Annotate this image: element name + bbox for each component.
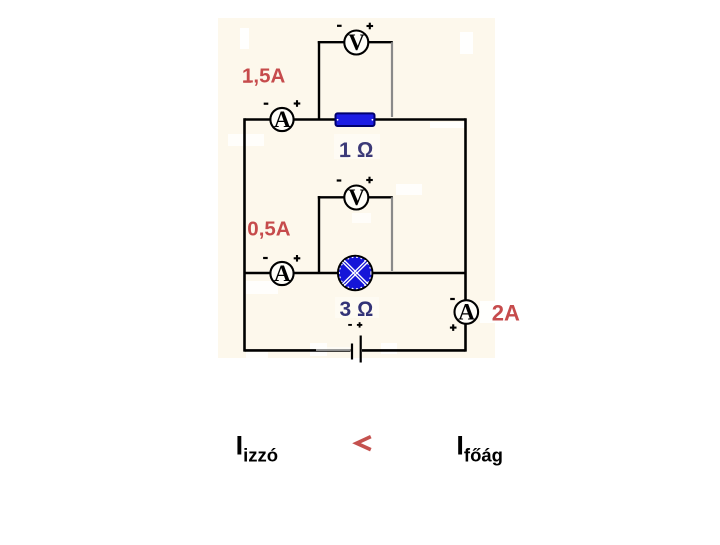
wire: outer loop top (branch 1) y=119.5 — [245, 118, 466, 121]
resistor R1 (1 ohm, blue) — [336, 113, 375, 126]
svg-text:0,5A: 0,5A — [247, 217, 290, 240]
label 1,5A (current branch 1) — [242, 65, 285, 88]
less-than sign — [357, 437, 371, 450]
ammeter A1 polarity — [264, 100, 301, 107]
wire: right vertical — [464, 118, 467, 351]
svg-text:1,5A: 1,5A — [242, 65, 285, 88]
lamp L1 (izzo) — [338, 256, 373, 291]
svg-text:1 Ω: 1 Ω — [339, 138, 373, 162]
wire: bottom right segment — [362, 349, 466, 352]
label 1 ohm (value of resistor R1) — [334, 134, 380, 162]
ammeter A3 (main branch) — [455, 300, 479, 324]
wire: voltmeter V1 loop top — [318, 41, 393, 43]
svg-text:V: V — [348, 185, 365, 210]
wire: voltmeter V2 loop left — [318, 196, 320, 273]
svg-text:A: A — [458, 300, 475, 325]
wire: voltmeter V2 loop right (gray) — [391, 197, 393, 271]
svg-text:2A: 2A — [492, 301, 520, 326]
wire: middle branch y=273 — [245, 272, 466, 275]
voltmeter V2 polarity — [337, 177, 373, 184]
svg-text:A: A — [274, 261, 291, 286]
voltmeter V1 polarity — [337, 23, 373, 30]
wire: voltmeter V1 loop right (gray) — [391, 42, 393, 117]
wire: left vertical — [243, 118, 246, 351]
white smudge artifacts — [228, 28, 495, 358]
voltmeter V2 — [344, 186, 368, 210]
wire: voltmeter V2 loop top — [318, 196, 393, 198]
wire: bottom left segment — [245, 349, 351, 352]
white smear over bottom wire left of battery — [316, 347, 350, 351]
ammeter A1 — [270, 108, 293, 131]
battery polarity labels — [348, 322, 362, 327]
svg-text:V: V — [348, 30, 365, 55]
label 3 ohm (value of lamp L1) — [335, 297, 379, 321]
battery B1 positive plate (long) — [360, 336, 362, 363]
wire: voltmeter V1 loop left — [318, 41, 320, 120]
svg-text:3 Ω: 3 Ω — [340, 298, 374, 321]
slide cream panel — [218, 18, 495, 358]
ammeter A2 polarity — [263, 255, 300, 262]
ammeter A3 polarity — [450, 299, 457, 331]
voltmeter V1 — [344, 31, 368, 55]
svg-text:A: A — [274, 107, 291, 132]
battery B1 negative plate (short) — [351, 344, 353, 360]
ammeter A2 — [270, 262, 293, 285]
